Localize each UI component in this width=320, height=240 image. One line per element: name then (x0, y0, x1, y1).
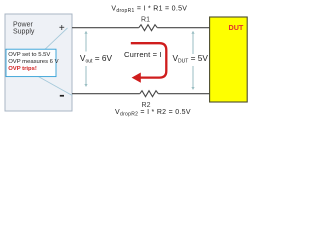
power supply box (5, 14, 72, 111)
wire: top left segment (+ to R1) (72, 27, 139, 29)
wire: bottom right segment (R2 to DUT) (158, 93, 209, 95)
Vout annotation arrow (bottom half) (84, 66, 87, 87)
svg-text:OVP measures 6 V: OVP measures 6 V (8, 59, 58, 65)
wire: top right segment (R1 to DUT) (157, 27, 209, 29)
VDUT annotation arrow (top half) (191, 31, 194, 54)
svg-text:DUT: DUT (229, 23, 244, 32)
VDUT annotation arrow (bottom half) (191, 66, 194, 90)
svg-text:OVP set to 5.5V: OVP set to 5.5V (8, 52, 50, 58)
current loop arrow (131, 43, 167, 82)
svg-text:Supply: Supply (13, 29, 35, 36)
svg-text:OVP trips!: OVP trips! (8, 66, 37, 72)
svg-text:VDUT = 5V: VDUT = 5V (173, 53, 209, 64)
resistor R2 (140, 91, 159, 109)
leader wire from OVP callout to + terminal (45, 28, 68, 49)
svg-text:R2: R2 (142, 102, 151, 109)
leader wire from OVP callout to - terminal (39, 77, 73, 96)
DUT box (210, 17, 248, 102)
Vout annotation arrow (top half) (84, 31, 87, 52)
svg-text:Vout = 6V: Vout = 6V (80, 53, 113, 64)
svg-text:+: + (59, 23, 65, 34)
- terminal (60, 95, 64, 97)
resistor R1 (139, 17, 158, 31)
svg-text:VdropR2 = I * R2 = 0.5V: VdropR2 = I * R2 = 0.5V (115, 109, 191, 118)
callout: OVP note (6, 49, 59, 76)
svg-text:Current = I: Current = I (124, 50, 162, 59)
wire: bottom left segment (- to R2) (72, 93, 140, 95)
svg-text:VdropR1 = I * R1 = 0.5V: VdropR1 = I * R1 = 0.5V (111, 5, 187, 14)
svg-text:Power: Power (13, 22, 34, 29)
svg-text:R1: R1 (141, 17, 150, 24)
